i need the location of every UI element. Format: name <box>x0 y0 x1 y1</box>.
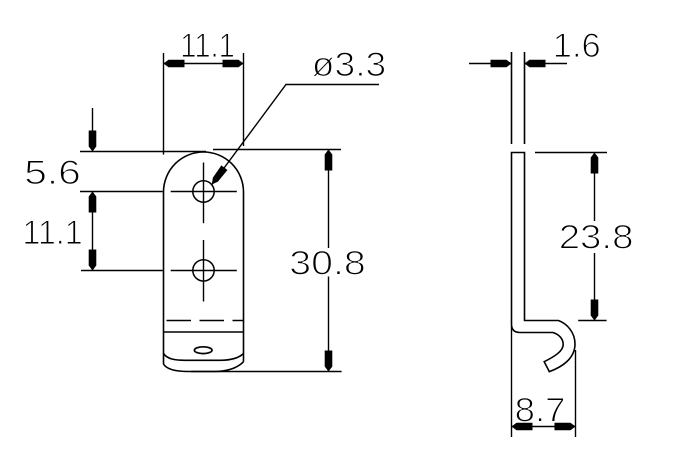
svg-text:30.8: 30.8 <box>289 244 365 282</box>
svg-text:11.1: 11.1 <box>23 214 83 252</box>
svg-text:ø3.3: ø3.3 <box>312 46 386 84</box>
svg-text:23.8: 23.8 <box>559 217 634 255</box>
svg-text:8.7: 8.7 <box>515 392 566 430</box>
svg-text:11.1: 11.1 <box>180 26 235 65</box>
svg-text:5.6: 5.6 <box>24 153 81 191</box>
svg-text:1.6: 1.6 <box>553 27 601 65</box>
